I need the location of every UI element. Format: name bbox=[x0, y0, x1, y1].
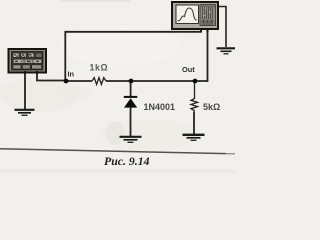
svg-text:5kΩ: 5kΩ bbox=[203, 102, 220, 112]
wire: node In up and right to oscilloscope channel A bbox=[65, 30, 201, 82]
wire: diode anode to ground bbox=[130, 110, 132, 136]
oscilloscope XSC1 bbox=[172, 2, 218, 32]
button glyphs bbox=[14, 55, 18, 57]
paper background bbox=[0, 0, 236, 173]
diode D1 1N4001 (cathode up) bbox=[124, 83, 138, 110]
figure bottom rule bbox=[0, 149, 235, 154]
node: diode junction bbox=[129, 79, 134, 84]
node Out (junction dot) bbox=[193, 79, 198, 84]
resistor R1 1kOhm (zigzag) bbox=[92, 78, 106, 85]
resistor R2 5kOhm (vertical zigzag) bbox=[191, 83, 198, 112]
screen bbox=[176, 5, 199, 24]
function generator XFG1 bbox=[9, 49, 47, 74]
wire: main horizontal node In to resistor R1 bbox=[66, 80, 92, 82]
svg-text:1N4001: 1N4001 bbox=[144, 102, 176, 112]
label 5kOhm bbox=[203, 102, 220, 112]
ground (oscilloscope, right) bbox=[217, 48, 236, 54]
ground (below diode D1) bbox=[120, 137, 142, 143]
label In bbox=[68, 70, 75, 79]
middle display row bbox=[13, 59, 42, 64]
bottom row bbox=[13, 65, 21, 69]
wire: oscilloscope ground terminal bbox=[218, 7, 226, 48]
waveform on screen bbox=[178, 8, 197, 21]
terminal stubs bbox=[24, 71, 26, 74]
ground (below generator) bbox=[15, 110, 35, 116]
label Out bbox=[182, 65, 195, 74]
wire: resistor R1 to diode junction bbox=[106, 80, 131, 82]
wire: resistor R2 bottom to ground bbox=[193, 112, 195, 134]
wire: node Out right and up to oscilloscope channel B bbox=[195, 29, 208, 81]
svg-text:Out: Out bbox=[182, 65, 195, 74]
label 1N4001 bbox=[144, 102, 176, 112]
node In (junction dot) bbox=[64, 79, 69, 84]
terminal stubs bbox=[200, 29, 202, 32]
control panel bbox=[200, 5, 216, 26]
ground (below resistor R2) bbox=[183, 135, 205, 141]
caption Рис. 9.14 bbox=[104, 154, 150, 168]
wire: generator left terminal to ground bbox=[24, 72, 26, 109]
svg-text:Рис. 9.14: Рис. 9.14 bbox=[104, 154, 150, 168]
svg-text:1kΩ: 1kΩ bbox=[90, 63, 109, 73]
wire: diode junction to node Out bbox=[131, 80, 195, 82]
waveform buttons row bbox=[13, 53, 19, 58]
label 1kOhm bbox=[90, 63, 109, 73]
wire: generator output to node In bbox=[37, 72, 66, 81]
svg-text:In: In bbox=[68, 70, 75, 79]
